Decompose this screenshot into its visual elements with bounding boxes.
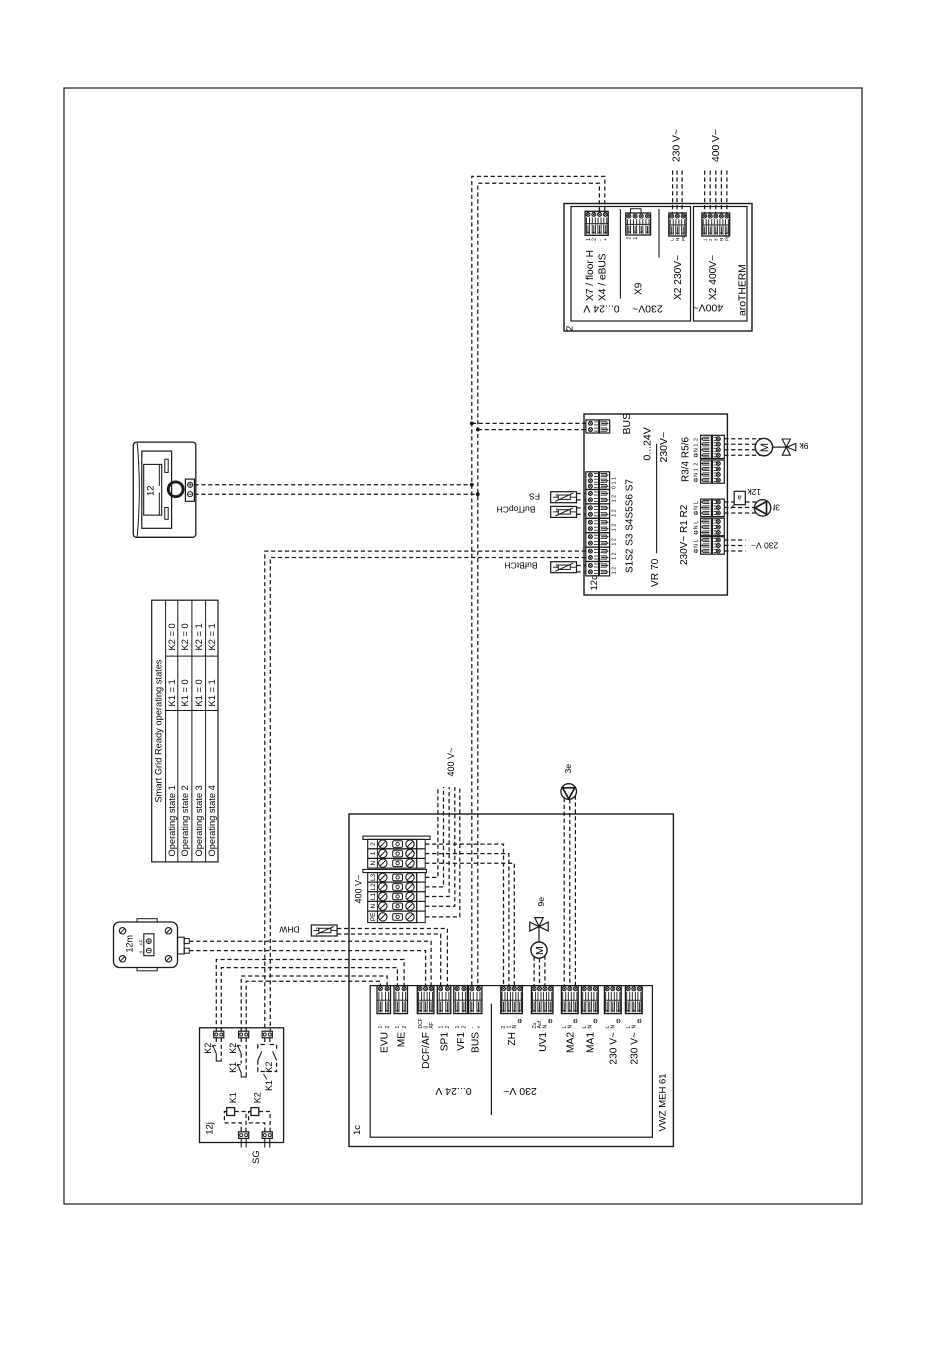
svg-text:1: 1 xyxy=(694,444,700,447)
label K2 (coil) xyxy=(252,1092,262,1103)
wire relay A pin2 to ME pin1 xyxy=(221,968,397,1032)
svg-text:BUS: BUS xyxy=(471,1032,482,1053)
label 0...24 V (VWZ) xyxy=(435,1085,471,1097)
wire S2 to SG relay contacts b xyxy=(270,558,586,1032)
wires DHW to SP1 xyxy=(337,929,447,986)
svg-text:PE: PE xyxy=(725,235,730,241)
svg-text:MA2: MA2 xyxy=(565,1032,576,1053)
label DHW xyxy=(279,924,299,934)
svg-text:400 V~: 400 V~ xyxy=(711,129,722,162)
svg-text:AF: AF xyxy=(138,939,143,945)
svg-text:FS: FS xyxy=(529,492,540,502)
svg-text:1 2: 1 2 xyxy=(611,524,617,532)
svg-text:2: 2 xyxy=(445,1026,451,1029)
svg-text:3f: 3f xyxy=(772,502,780,512)
svg-text:N: N xyxy=(694,473,700,477)
svg-text:2: 2 xyxy=(694,438,700,441)
svg-text:+: + xyxy=(603,238,609,241)
label 1c xyxy=(352,1125,363,1135)
svg-text:0: 0 xyxy=(138,951,143,954)
svg-text:BUS: BUS xyxy=(621,413,633,435)
svg-text:VR 70: VR 70 xyxy=(650,558,661,587)
svg-text:L: L xyxy=(694,539,700,542)
table row operating state 3 xyxy=(194,623,204,856)
label 2 xyxy=(565,326,576,331)
svg-text:K2: K2 xyxy=(252,1092,262,1103)
unit 1c VWZ MEH 61 box xyxy=(349,814,673,1147)
wires 230V supply to X2 xyxy=(673,171,683,213)
wire relay A pin1 to ME pin2 xyxy=(216,960,404,1032)
terminal 230Vb (VWZ) xyxy=(625,986,642,1029)
control 12 plug xyxy=(185,479,194,501)
label S1S2 S3 S4S5S6 S7 xyxy=(625,479,636,573)
wires 12m to DCF/AF xyxy=(189,941,431,985)
wires strip to ZH xyxy=(425,844,514,986)
terminal X2 230V (3-pin) xyxy=(669,213,686,241)
svg-text:L1: L1 xyxy=(370,893,377,901)
svg-text:1: 1 xyxy=(370,851,377,855)
wires R2 to pump 3f xyxy=(724,502,756,513)
wire eBUS trunk b xyxy=(478,183,600,988)
table row operating state 1 xyxy=(167,623,177,856)
wire control 12 eBUS a xyxy=(194,483,473,487)
svg-text:9e: 9e xyxy=(536,897,546,907)
svg-text:1: 1 xyxy=(702,238,707,241)
label 0...24V (VR70) xyxy=(642,427,654,460)
label SG xyxy=(251,1150,262,1164)
terminal SP1 (VWZ) xyxy=(437,986,451,1029)
terminal ME (VWZ) xyxy=(394,986,408,1029)
terminal S6 (VR70) xyxy=(586,490,610,504)
svg-text:Operating state 3: Operating state 3 xyxy=(194,785,204,856)
svg-text:12j: 12j xyxy=(204,1122,215,1135)
svg-text:230 V~: 230 V~ xyxy=(629,1032,640,1065)
wire eBUS tap to VR70 BUS pin 2 xyxy=(476,428,586,432)
svg-text:230 V~: 230 V~ xyxy=(751,540,778,550)
svg-text:L3: L3 xyxy=(370,873,377,881)
label 12m xyxy=(125,935,135,953)
label 230 V~ xyxy=(608,1032,619,1065)
label 230V~ (box 2) xyxy=(632,303,663,315)
label 400V~ (box 2) xyxy=(692,302,723,314)
pump 3f xyxy=(754,500,770,516)
svg-text:0...24 V: 0...24 V xyxy=(583,303,619,315)
svg-text:K2: K2 xyxy=(228,1043,238,1054)
terminal MA1 (VWZ) xyxy=(581,986,598,1029)
svg-text:1 2: 1 2 xyxy=(611,538,617,546)
sensor BufTopCH xyxy=(551,506,577,517)
svg-text:L: L xyxy=(669,238,674,241)
label K1 (contact B) xyxy=(228,1062,238,1073)
sensor BufBtCH xyxy=(551,562,577,573)
svg-text:K1 = 0: K1 = 0 xyxy=(180,679,190,706)
label K1 (coil) xyxy=(228,1092,238,1103)
terminal X9 (4-pin) xyxy=(626,209,651,240)
terminal 230V~ out (VR70) xyxy=(701,537,725,555)
label ME xyxy=(396,1032,407,1047)
label R3/4 R5/6 xyxy=(681,437,692,482)
label 400 V~ (strip) xyxy=(353,875,363,904)
label VWZ MEH 61 xyxy=(657,1073,668,1131)
svg-text:2: 2 xyxy=(370,842,377,846)
svg-text:Operating state 2: Operating state 2 xyxy=(180,785,190,856)
table Smart Grid Ready operating states xyxy=(152,600,218,862)
label EVU xyxy=(379,1032,390,1053)
svg-text:X2 400V~: X2 400V~ xyxy=(708,255,719,300)
svg-text:2: 2 xyxy=(694,463,700,466)
svg-text:12: 12 xyxy=(146,485,157,496)
relay terminal A (to ME) xyxy=(214,1031,224,1038)
table title Smart Grid Ready operating states xyxy=(154,659,164,802)
motor M mixer xyxy=(755,438,772,455)
label X2 400V~ xyxy=(708,255,719,300)
svg-text:230V~: 230V~ xyxy=(658,432,670,463)
label K2 (contact B) xyxy=(228,1043,238,1054)
contacts K2 K1 under B xyxy=(237,1038,247,1077)
svg-text:X9: X9 xyxy=(634,282,645,295)
svg-text:1: 1 xyxy=(438,1026,444,1029)
svg-text:230 V~: 230 V~ xyxy=(608,1032,619,1065)
terminal BUS (VWZ) xyxy=(468,986,482,1029)
svg-text:VF1: VF1 xyxy=(456,1032,467,1051)
label SP1 xyxy=(440,1032,451,1052)
terminal ZH (VWZ) xyxy=(501,986,523,1029)
svg-text:K1 = 0: K1 = 0 xyxy=(194,679,204,706)
svg-text:SP1: SP1 xyxy=(440,1032,451,1052)
svg-text:N: N xyxy=(611,1025,617,1029)
wires BufTopCH to S5 xyxy=(577,508,586,514)
svg-text:K1: K1 xyxy=(264,1080,274,1091)
wires 400V supply to strip xyxy=(425,787,460,917)
terminal VF1 (VWZ) xyxy=(454,986,468,1029)
label 400 V~ supply (VWZ) xyxy=(446,748,456,777)
svg-text:K1: K1 xyxy=(228,1062,238,1073)
svg-text:2: 2 xyxy=(462,1026,468,1029)
svg-text:X7 / floor H: X7 / floor H xyxy=(585,250,596,301)
valve 9k mixing valve xyxy=(773,439,796,455)
label K1 K2 (contact C) xyxy=(264,1061,274,1091)
label BufTopCH xyxy=(497,505,536,515)
terminal X7/X4 (4-pin) xyxy=(585,211,609,241)
label 9e xyxy=(536,897,546,907)
label X2 230V~ xyxy=(673,255,684,300)
page frame xyxy=(64,88,862,1204)
svg-text:230 V~: 230 V~ xyxy=(503,1085,537,1097)
svg-text:N: N xyxy=(512,1025,518,1029)
relay terminal E (K2 coil / SG) xyxy=(262,1132,272,1139)
svg-text:1 2: 1 2 xyxy=(611,567,617,575)
label 230 V~ supply xyxy=(671,129,682,162)
sensor DHW xyxy=(311,925,337,936)
terminal R3/4 (VR70) xyxy=(701,460,725,483)
svg-text:2: 2 xyxy=(708,238,713,241)
svg-text:1: 1 xyxy=(633,237,639,240)
svg-text:0 1 1: 0 1 1 xyxy=(611,477,617,489)
svg-text:ZH: ZH xyxy=(507,1032,518,1046)
wire eBUS trunk a (X4 pin - to VWZ BUS) xyxy=(472,176,605,988)
terminal strip 400V (VWZ) xyxy=(363,836,430,923)
terminal S2 (VR70) xyxy=(586,547,610,561)
svg-text:PE: PE xyxy=(681,235,686,241)
svg-text:DCF/AF: DCF/AF xyxy=(421,1032,432,1069)
svg-text:3e: 3e xyxy=(563,764,573,774)
label 230 V~ (VWZ) xyxy=(503,1085,537,1097)
svg-text:X4 / eBUS: X4 / eBUS xyxy=(598,253,609,301)
svg-text:1c: 1c xyxy=(352,1125,363,1135)
motor M 9e xyxy=(531,942,547,958)
terminal DCF/AF (VWZ) xyxy=(417,986,435,1029)
wires SG external xyxy=(241,1138,270,1147)
svg-text:230 V~: 230 V~ xyxy=(671,129,682,162)
svg-text:Operating state 1: Operating state 1 xyxy=(167,785,177,856)
terminal UV1 (VWZ) xyxy=(531,986,553,1029)
svg-text:2: 2 xyxy=(627,237,633,240)
terminal 230 V~ (VWZ) xyxy=(604,986,621,1029)
pump 3e xyxy=(561,784,577,800)
valve 9e diverter xyxy=(530,918,548,942)
label 230 V~ (VR70 right) xyxy=(751,540,778,550)
svg-text:a: a xyxy=(738,494,742,501)
svg-text:L2: L2 xyxy=(370,883,377,891)
label 12d xyxy=(589,575,600,591)
pin labels R2 R1 230V~ xyxy=(694,501,700,553)
label BufBtCH xyxy=(504,560,537,570)
svg-text:K1 = 1: K1 = 1 xyxy=(167,679,177,706)
label 12k xyxy=(747,487,761,497)
wires 230V~ spare (VR70) xyxy=(724,540,745,551)
svg-text:9k: 9k xyxy=(799,441,809,451)
svg-text:12d: 12d xyxy=(589,575,600,591)
label aroTHERM xyxy=(738,264,749,316)
label MA1 xyxy=(585,1032,596,1053)
svg-text:N: N xyxy=(588,1025,594,1029)
svg-text:N: N xyxy=(568,1025,574,1029)
label FS xyxy=(529,492,540,502)
svg-text:K2 = 1: K2 = 1 xyxy=(207,623,217,650)
wires 9e motor to UV1 xyxy=(534,956,545,986)
svg-text:EVU: EVU xyxy=(379,1032,390,1053)
svg-text:N: N xyxy=(632,1025,638,1029)
svg-text:230V~: 230V~ xyxy=(632,303,663,315)
thermostat 12k xyxy=(731,491,746,508)
svg-text:R3/4 R5/6: R3/4 R5/6 xyxy=(681,437,692,482)
wire relay B pin2 to EVU pin1 xyxy=(246,981,380,1031)
relay box 12j xyxy=(200,1028,284,1143)
terminal X2 400V (5-pin) xyxy=(702,213,730,241)
svg-text:L: L xyxy=(694,501,700,504)
svg-text:Operating state 4: Operating state 4 xyxy=(207,785,217,856)
pin labels R3/4 R5/6 xyxy=(694,438,700,482)
svg-text:N: N xyxy=(694,525,700,529)
coil K2 xyxy=(249,1108,271,1132)
label 9k xyxy=(799,441,809,451)
label 3e xyxy=(563,764,573,774)
terminal S3 (VR70) xyxy=(586,533,610,547)
svg-text:K2 = 0: K2 = 0 xyxy=(180,623,190,650)
wires 400V supply to X2 xyxy=(705,171,727,213)
svg-text:K2 = 0: K2 = 0 xyxy=(167,623,177,650)
wire S2 to SG relay contacts a xyxy=(265,551,586,1031)
control 12 (system control) xyxy=(133,442,196,537)
svg-text:1 2: 1 2 xyxy=(611,509,617,517)
svg-text:K2 = 1: K2 = 1 xyxy=(194,623,204,650)
wires 3e to MA2 xyxy=(564,796,575,986)
svg-text:1: 1 xyxy=(694,468,700,471)
svg-text:M: M xyxy=(534,946,546,955)
label 230V~ R1 R2 xyxy=(679,504,690,565)
svg-text:1: 1 xyxy=(455,1026,461,1029)
svg-text:MA1: MA1 xyxy=(585,1032,596,1053)
svg-text:230V~ R1 R2: 230V~ R1 R2 xyxy=(679,504,690,565)
wire control 12 eBUS b xyxy=(194,492,479,496)
terminal S7 (VR70) xyxy=(586,472,610,490)
svg-text:1: 1 xyxy=(378,1026,384,1029)
svg-text:PE: PE xyxy=(370,912,377,921)
svg-text:N: N xyxy=(694,448,700,452)
label BUS xyxy=(471,1032,482,1053)
svg-text:N: N xyxy=(694,544,700,548)
svg-text:UV1: UV1 xyxy=(538,1032,549,1052)
label 0...24 V (box 2) xyxy=(583,303,619,315)
svg-text:1 2: 1 2 xyxy=(611,553,617,561)
svg-text:N: N xyxy=(543,1025,549,1029)
svg-text:N: N xyxy=(370,904,377,909)
label K2 (contact A) xyxy=(203,1043,213,1054)
terminal R2 (VR70) xyxy=(701,499,725,516)
svg-text:ME: ME xyxy=(396,1032,407,1047)
svg-text:12m: 12m xyxy=(125,935,135,953)
relay terminal B (to EVU) xyxy=(239,1031,249,1038)
label 400 V~ supply xyxy=(711,129,722,162)
label X7 / floor H xyxy=(585,250,596,301)
pin labels S terminals xyxy=(611,477,617,574)
svg-text:0...24V: 0...24V xyxy=(642,427,654,460)
unit 2 aroTHERM outdoor unit box xyxy=(564,204,752,332)
svg-text:BufTopCH: BufTopCH xyxy=(497,505,536,515)
coil K1 xyxy=(224,1108,246,1132)
label ZH xyxy=(507,1032,518,1046)
label 12j xyxy=(204,1122,215,1135)
table row operating state 2 xyxy=(180,623,190,856)
svg-text:X2 230V~: X2 230V~ xyxy=(673,255,684,300)
svg-text:1 2: 1 2 xyxy=(611,495,617,503)
label X4 / eBUS xyxy=(598,253,609,301)
contacts K1 K2 parallel under C xyxy=(258,1038,277,1072)
label 230Vb xyxy=(629,1032,640,1065)
svg-text:2: 2 xyxy=(385,1026,391,1029)
svg-text:Smart Grid Ready operating sta: Smart Grid Ready operating states xyxy=(154,659,164,802)
terminal MA2 (VWZ) xyxy=(561,986,578,1029)
svg-text:2: 2 xyxy=(565,326,576,331)
label VR 70 xyxy=(650,558,661,587)
svg-text:aroTHERM: aroTHERM xyxy=(738,264,749,316)
terminal BUS (VR70) xyxy=(586,420,610,433)
svg-text:L: L xyxy=(694,521,700,524)
svg-text:3: 3 xyxy=(713,238,718,241)
wires FS to S6 xyxy=(577,494,586,500)
svg-text:VWZ MEH 61: VWZ MEH 61 xyxy=(657,1073,668,1131)
label MA2 xyxy=(565,1032,576,1053)
label X9 xyxy=(634,282,645,295)
label 12 xyxy=(146,485,157,496)
svg-text:BufBtCH: BufBtCH xyxy=(504,560,537,570)
terminal S1 (VR70) xyxy=(586,562,610,576)
relay terminal C (to S2) xyxy=(262,1031,272,1038)
terminal S5 (VR70) xyxy=(586,504,610,518)
label VF1 xyxy=(456,1032,467,1051)
svg-text:2: 2 xyxy=(402,1026,408,1029)
contact K2 under A xyxy=(212,1038,222,1061)
terminal R5/6 (VR70) xyxy=(701,435,725,458)
wire relay B pin1 to EVU pin2 xyxy=(241,976,387,1031)
svg-text:N: N xyxy=(675,238,680,241)
label 3f xyxy=(772,502,780,512)
terminal S4 (VR70) xyxy=(586,518,610,532)
svg-text:400V~: 400V~ xyxy=(692,302,723,314)
svg-text:K1: K1 xyxy=(228,1092,238,1103)
svg-text:SG: SG xyxy=(251,1150,262,1164)
svg-text:400 V~: 400 V~ xyxy=(446,748,456,777)
table row operating state 4 xyxy=(207,623,217,856)
sensor 12m outdoor xyxy=(114,919,190,971)
wires BufBtCH to S1 xyxy=(577,566,586,572)
svg-text:N: N xyxy=(370,861,377,866)
svg-text:K2: K2 xyxy=(203,1043,213,1054)
module 12d VR 70 box xyxy=(584,414,727,595)
svg-text:S1S2 S3 S4S5S6 S7: S1S2 S3 S4S5S6 S7 xyxy=(625,479,636,573)
label UV1 xyxy=(538,1032,549,1052)
terminal EVU (VWZ) xyxy=(377,986,391,1029)
label BUS (VR70) xyxy=(621,413,633,435)
svg-text:DHW: DHW xyxy=(279,924,299,934)
terminal R1 (VR70) xyxy=(701,518,725,536)
svg-text:400 V~: 400 V~ xyxy=(353,875,363,904)
label 230V~ (VR70) xyxy=(658,432,670,463)
svg-text:1: 1 xyxy=(395,1026,401,1029)
sensor FS xyxy=(551,492,577,503)
svg-text:M: M xyxy=(759,443,771,452)
svg-text:N: N xyxy=(694,506,700,510)
wire eBUS tap to VR70 BUS pin 1 xyxy=(470,422,586,426)
label DCF/AF xyxy=(421,1032,432,1069)
svg-text:+: + xyxy=(476,1026,482,1029)
svg-text:N: N xyxy=(719,238,724,241)
svg-text:K2: K2 xyxy=(264,1061,274,1072)
svg-text:AF: AF xyxy=(429,1022,435,1028)
svg-text:0...24 V: 0...24 V xyxy=(435,1085,471,1097)
wires R5/6 to motor M xyxy=(724,439,761,456)
svg-text:K1 = 1: K1 = 1 xyxy=(207,679,217,706)
relay terminal D (K1 coil / SG) xyxy=(239,1132,249,1139)
svg-text:12k: 12k xyxy=(747,487,761,497)
